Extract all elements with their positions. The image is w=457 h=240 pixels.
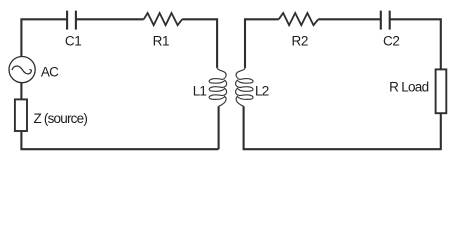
- svg-text:L1: L1: [193, 83, 207, 98]
- svg-text:C2: C2: [383, 33, 399, 48]
- svg-text:L2: L2: [255, 83, 269, 98]
- svg-text:C1: C1: [65, 33, 81, 48]
- svg-text:R1: R1: [153, 33, 169, 48]
- svg-text:R2: R2: [292, 33, 308, 48]
- svg-text:AC: AC: [41, 65, 59, 80]
- svg-text:Z (source): Z (source): [34, 111, 88, 126]
- svg-text:R Load: R Load: [389, 80, 429, 95]
